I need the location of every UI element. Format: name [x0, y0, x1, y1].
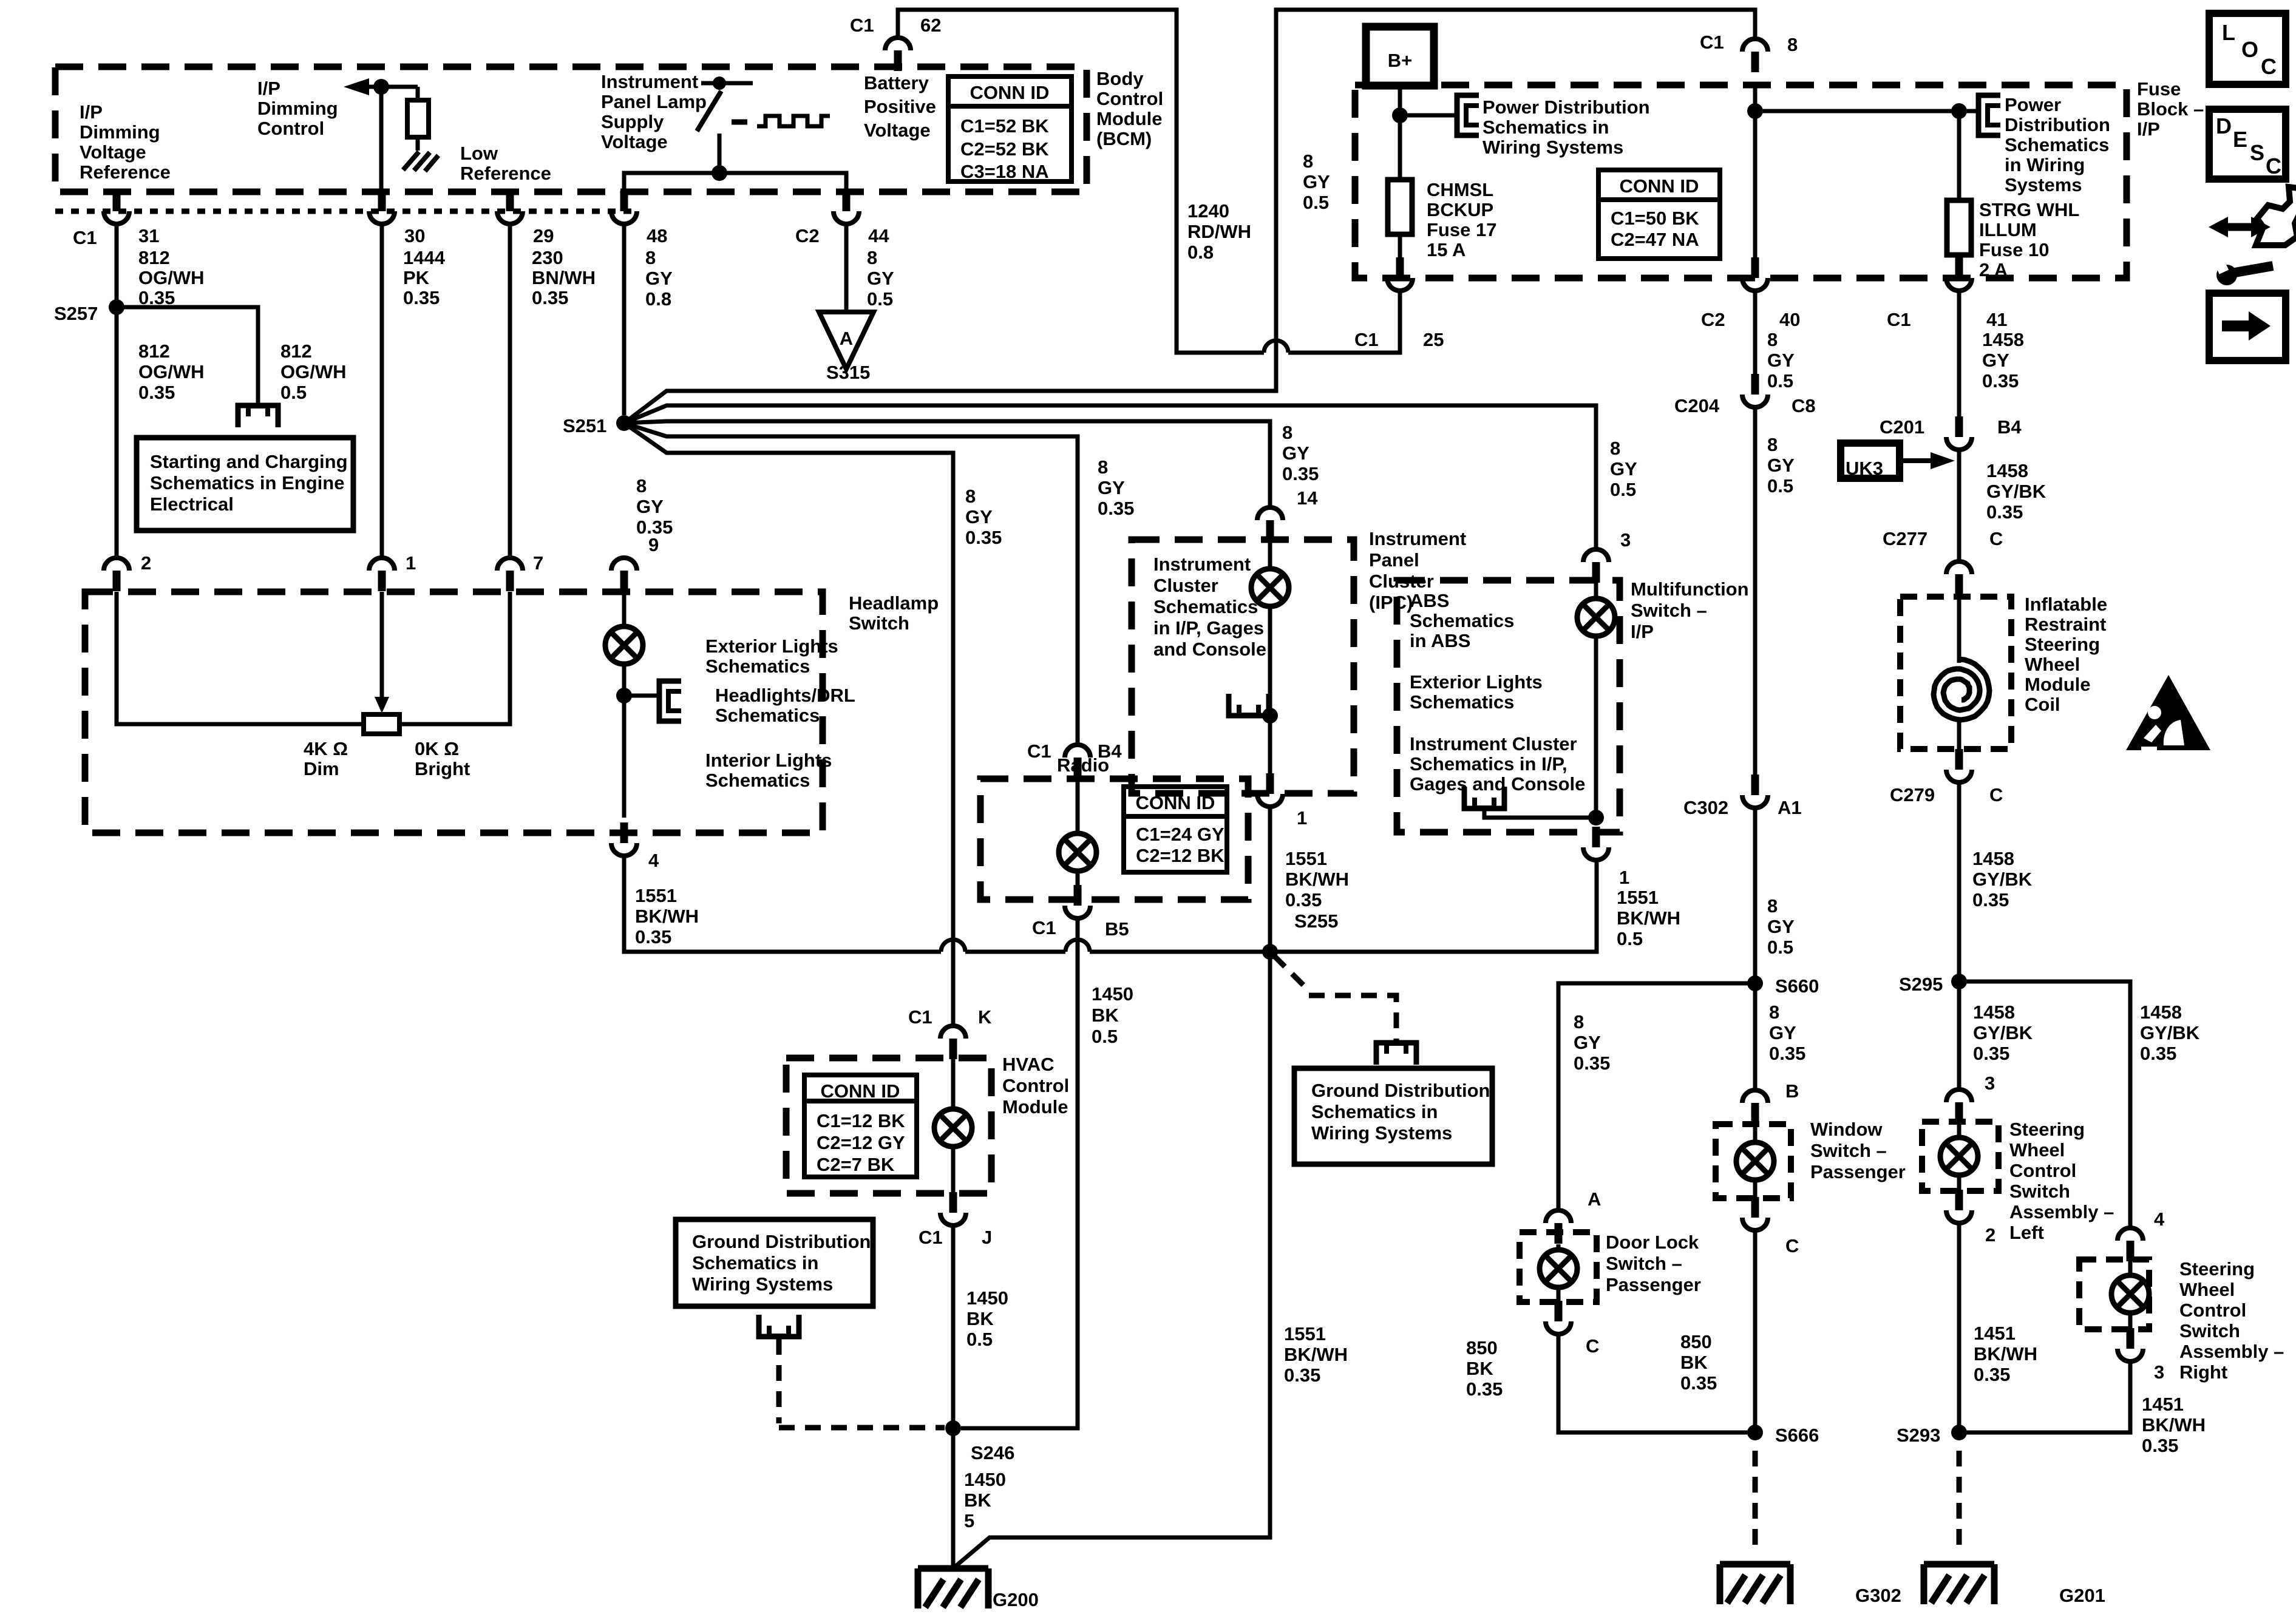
- wire C1-8 into fuse block: [1753, 85, 1758, 111]
- svg-text:in ABS: in ABS: [1410, 630, 1470, 651]
- lamp radio illumination: [1059, 833, 1096, 871]
- connector C2 pin 40: [1742, 257, 1768, 291]
- svg-text:0.5: 0.5: [1767, 370, 1793, 392]
- module box Fuse Block - I/P: [1355, 85, 2127, 278]
- connector pin 9: [611, 558, 637, 591]
- svg-text:Dimming: Dimming: [257, 98, 338, 119]
- label wire 1451 BK/WH 0.35 (right): [2142, 1394, 2206, 1456]
- wire radio lamp top: [1076, 779, 1080, 835]
- svg-text:I/P: I/P: [80, 101, 103, 123]
- svg-text:Fuse 17: Fuse 17: [1427, 219, 1496, 240]
- node S251: [616, 415, 632, 431]
- label Power Distribution Schematics in Wiring Systems (left): [1483, 97, 1650, 158]
- svg-text:Module: Module: [1002, 1096, 1068, 1117]
- connector pin 2 (steer left): [1946, 1190, 1972, 1223]
- table CONN ID (fuse block): [1598, 170, 1720, 259]
- label Instrument Cluster Schematics (ABS box): [1410, 733, 1585, 795]
- svg-text:0.35: 0.35: [635, 926, 671, 947]
- svg-text:8: 8: [636, 475, 647, 497]
- svg-text:1451: 1451: [1974, 1323, 2016, 1344]
- svg-text:44: 44: [868, 225, 889, 246]
- connector C2 pin 44: [834, 191, 859, 224]
- svg-text:GY: GY: [1767, 455, 1795, 476]
- svg-text:1458: 1458: [1982, 329, 2024, 350]
- svg-text:(IPC): (IPC): [1369, 592, 1413, 613]
- connector C (window): [1742, 1197, 1768, 1230]
- wire window lamp down: [1753, 1180, 1758, 1198]
- svg-text:Power Distribution: Power Distribution: [1483, 97, 1650, 118]
- connector C1 K (HVAC): [940, 1026, 966, 1059]
- label wire 230 BN/WH 0.35: [532, 247, 596, 308]
- label wire 1458 GY/BK 0.35 (right branch): [2140, 1002, 2200, 1064]
- svg-text:2: 2: [141, 552, 151, 574]
- svg-text:CHMSL: CHMSL: [1427, 179, 1493, 200]
- connector C204 C8: [1742, 374, 1768, 407]
- svg-text:CONN ID: CONN ID: [1620, 175, 1699, 197]
- wire steer left lamp top: [1957, 1122, 1961, 1139]
- box Starting and Charging Schematics: [137, 438, 353, 531]
- svg-text:Restraint: Restraint: [2025, 614, 2106, 635]
- connector pin 14: [1257, 507, 1283, 541]
- svg-text:GY: GY: [636, 496, 664, 517]
- svg-text:BK: BK: [1092, 1005, 1119, 1026]
- svg-text:GY: GY: [1767, 350, 1795, 371]
- svg-text:C2=12 BK: C2=12 BK: [1136, 845, 1224, 866]
- module box Steering Wheel Control Switch Assembly - Left: [1922, 1122, 1999, 1191]
- wire 8 GY pin44 to S315: [844, 224, 849, 312]
- wire 1240 RD/WH fuse17 to BCM C1-62: [1288, 291, 1400, 353]
- svg-text:Switch: Switch: [2179, 1320, 2240, 1341]
- label wire 1458 GY/BK 0.35 (S295 left): [1973, 1002, 2033, 1064]
- svg-text:C1: C1: [73, 227, 97, 248]
- svg-text:PK: PK: [403, 267, 430, 288]
- label Steering Wheel Control Switch Assembly - Left: [2009, 1119, 2114, 1243]
- svg-text:Module: Module: [1096, 108, 1163, 129]
- wire C2-40 to C204: [1753, 291, 1758, 374]
- label wire 1458 GY/BK 0.35 (below coil): [1972, 848, 2033, 910]
- svg-text:Assembly –: Assembly –: [2009, 1201, 2114, 1222]
- svg-text:Reference: Reference: [80, 161, 171, 183]
- box Ground Distribution Schematics (S255): [1294, 1068, 1492, 1164]
- label 0K ohm Bright: [415, 738, 470, 779]
- svg-text:Distribution: Distribution: [2005, 114, 2110, 135]
- wire steer right to S293: [1959, 1361, 2130, 1432]
- svg-text:Instrument: Instrument: [1369, 528, 1466, 549]
- svg-text:Inflatable: Inflatable: [2025, 594, 2107, 615]
- svg-text:8: 8: [965, 486, 976, 507]
- fuse CHMSL BCKUP Fuse 17 15A: [1398, 115, 1402, 180]
- wire window lamp top: [1753, 1124, 1758, 1144]
- label wire 1551 BK/WH 0.5: [1617, 887, 1680, 949]
- svg-text:4: 4: [2154, 1209, 2165, 1230]
- svg-text:C2=52 BK: C2=52 BK: [960, 138, 1049, 160]
- svg-text:5: 5: [964, 1510, 974, 1531]
- svg-text:I/P: I/P: [1631, 621, 1654, 642]
- svg-text:31: 31: [138, 225, 159, 246]
- svg-text:Control: Control: [257, 118, 324, 139]
- svg-text:ABS: ABS: [1410, 590, 1449, 611]
- option code UK3 pointer: [1841, 443, 1900, 478]
- lamp door lock switch illumination: [1540, 1250, 1577, 1287]
- svg-text:GY: GY: [867, 268, 894, 289]
- svg-text:Exterior Lights: Exterior Lights: [1410, 671, 1543, 693]
- label 4K ohm Dim: [304, 738, 348, 779]
- svg-text:C2=12 GY: C2=12 GY: [817, 1132, 905, 1153]
- svg-text:C1: C1: [1027, 741, 1051, 762]
- wire dashed S293 to G201: [1957, 1451, 1962, 1545]
- connector C1 J (HVAC): [940, 1192, 966, 1225]
- svg-text:B4: B4: [1997, 416, 2022, 438]
- svg-text:Fuse 10: Fuse 10: [1979, 239, 2049, 260]
- svg-text:C3=18 NA: C3=18 NA: [960, 161, 1049, 182]
- svg-text:Supply: Supply: [601, 111, 664, 132]
- label HVAC Control Module: [1002, 1054, 1069, 1117]
- svg-text:8: 8: [1769, 1002, 1779, 1023]
- connector C1 pin 30: [369, 191, 395, 224]
- module box Body Control Module (BCM): [55, 67, 1087, 192]
- svg-text:0.35: 0.35: [138, 382, 175, 403]
- svg-text:C1=24 GY: C1=24 GY: [1136, 824, 1224, 845]
- connector C1 pin 48: [611, 191, 637, 224]
- wire S660 to door lock switch: [1558, 983, 1755, 1210]
- svg-text:29: 29: [533, 225, 554, 246]
- svg-text:Wiring Systems: Wiring Systems: [1483, 137, 1623, 158]
- svg-text:1: 1: [1297, 807, 1307, 829]
- svg-text:0.35: 0.35: [1974, 1364, 2010, 1385]
- wire C201 to C277: [1957, 450, 1961, 561]
- svg-text:GY: GY: [1982, 350, 2009, 371]
- svg-text:(BCM): (BCM): [1096, 128, 1152, 149]
- label Low Reference: [460, 143, 551, 184]
- wire pin14 to IPC lamp: [1268, 540, 1272, 570]
- svg-text:in Wiring: in Wiring: [2005, 154, 2085, 175]
- svg-text:Exterior Lights: Exterior Lights: [705, 636, 838, 657]
- svg-text:1551: 1551: [635, 885, 677, 906]
- legend service icon: [2256, 187, 2296, 245]
- svg-text:25: 25: [1423, 329, 1444, 350]
- svg-text:G302: G302: [1855, 1585, 1901, 1606]
- svg-text:Radio: Radio: [1057, 754, 1109, 776]
- svg-text:RD/WH: RD/WH: [1187, 221, 1251, 242]
- wire S295 to right switch: [1959, 981, 2130, 1228]
- connector C1 B5 (radio): [1065, 885, 1090, 918]
- svg-text:8: 8: [1303, 151, 1313, 172]
- flag power distribution (right): [1978, 95, 2000, 135]
- wire 8 GY pin48 to S251: [622, 224, 627, 415]
- label wire 8 GY 0.35 (to HVAC): [965, 486, 1002, 548]
- wire multifunction lamp top: [1594, 583, 1598, 598]
- svg-text:A1: A1: [1778, 797, 1802, 818]
- svg-text:0.8: 0.8: [1187, 242, 1214, 263]
- wire dashed S255 to ground flag: [1274, 955, 1309, 991]
- wire dashed S666 to G302: [1753, 1451, 1758, 1545]
- module box HVAC Control Module: [786, 1058, 991, 1193]
- label Instrument Cluster Schematics in I/P Gages and Console: [1153, 554, 1266, 660]
- svg-text:C279: C279: [1890, 784, 1935, 805]
- wire across fuse block: [1755, 109, 1978, 114]
- label Steering Wheel Control Switch Assembly - Right: [2179, 1258, 2284, 1383]
- label wire 1451 BK/WH 0.35 (left): [1974, 1323, 2037, 1385]
- lamp multifunction switch illumination: [1577, 598, 1615, 636]
- label wire 8 GY 0.5 (below C8): [1767, 434, 1795, 497]
- svg-text:C1=52 BK: C1=52 BK: [960, 115, 1049, 137]
- label wire 8 GY 0.5 (above C204): [1767, 329, 1795, 392]
- connector pin 4: [611, 822, 637, 856]
- wire pin41 to C201: [1957, 291, 1961, 416]
- lamp steering right illumination: [2111, 1275, 2149, 1313]
- label wire 8 GY 0.35 (door lock): [1574, 1011, 1610, 1074]
- label wire 850 BK 0.35 (door lock): [1466, 1337, 1503, 1400]
- svg-text:1450: 1450: [964, 1469, 1006, 1490]
- svg-text:0.35: 0.35: [532, 287, 568, 308]
- svg-text:1551: 1551: [1284, 1323, 1326, 1344]
- svg-text:0.35: 0.35: [965, 527, 1002, 548]
- svg-text:GY/BK: GY/BK: [1986, 481, 2046, 502]
- connector C1 pin 41: [1946, 257, 1972, 291]
- svg-text:1: 1: [406, 552, 416, 574]
- node fuse block junction 2: [1951, 103, 1967, 119]
- connector pin 1 (IPC): [1257, 773, 1283, 807]
- wire S257 to pin 2: [115, 307, 119, 557]
- svg-text:C2=47 NA: C2=47 NA: [1611, 229, 1699, 250]
- svg-text:Panel: Panel: [1369, 549, 1419, 571]
- label Fuse Block - I/P: [2137, 78, 2204, 140]
- node S295: [1951, 974, 1967, 989]
- wire coil top: [1957, 597, 1961, 663]
- svg-text:812: 812: [280, 341, 312, 362]
- svg-text:0K Ω: 0K Ω: [415, 738, 459, 759]
- battery feed B+ symbol: [1366, 27, 1434, 86]
- svg-text:Power: Power: [2005, 94, 2061, 115]
- label Exterior Lights Schematics: [705, 636, 838, 677]
- svg-text:D: D: [2216, 114, 2232, 138]
- svg-text:Starting and Charging: Starting and Charging: [150, 451, 348, 472]
- svg-text:E: E: [2233, 127, 2247, 152]
- svg-text:STRG WHL: STRG WHL: [1979, 199, 2079, 220]
- svg-text:48: 48: [647, 225, 667, 246]
- flag headlights/DRL schematics: [659, 681, 681, 721]
- label wire 8 GY 0.5 (below A1): [1767, 895, 1795, 958]
- svg-text:0.35: 0.35: [1284, 1364, 1320, 1386]
- label wire 1458 GY 0.35: [1982, 329, 2024, 392]
- svg-text:C: C: [1785, 1235, 1799, 1256]
- wire S257 branch to starting/charging: [117, 307, 258, 403]
- svg-text:Passenger: Passenger: [1606, 1274, 1701, 1295]
- wire coil bottom: [1957, 720, 1961, 749]
- svg-text:Low: Low: [460, 143, 498, 164]
- svg-text:Assembly –: Assembly –: [2179, 1341, 2284, 1362]
- svg-text:0.5: 0.5: [1767, 937, 1793, 958]
- svg-text:Instrument: Instrument: [1153, 554, 1251, 575]
- svg-text:0.35: 0.35: [2140, 1043, 2176, 1064]
- svg-text:L: L: [2222, 20, 2235, 45]
- ground BCM internal chassis: [403, 152, 438, 171]
- svg-text:BK/WH: BK/WH: [2142, 1414, 2206, 1436]
- label wire 1551 BK/WH 0.35 (IPC): [1285, 848, 1349, 910]
- flag ground distribution (S255): [1376, 1043, 1416, 1065]
- svg-text:C1: C1: [1032, 917, 1056, 938]
- label wire 1551 BK/WH 0.35 (pin 4): [635, 885, 699, 947]
- label wire 1450 BK 5: [964, 1469, 1006, 1531]
- svg-text:OG/WH: OG/WH: [138, 361, 205, 382]
- label wire 1450 BK 0.5 (HVAC): [966, 1287, 1008, 1350]
- svg-text:1450: 1450: [1092, 983, 1133, 1005]
- svg-text:0.5: 0.5: [1617, 928, 1643, 949]
- wire to headlights flag: [624, 694, 659, 698]
- lamp headlamp switch illumination: [605, 626, 643, 664]
- svg-text:0.5: 0.5: [867, 288, 893, 310]
- wire steer right lamp down: [2128, 1313, 2133, 1329]
- connector C1 pin 29: [497, 191, 523, 224]
- svg-text:Schematics: Schematics: [1410, 691, 1514, 713]
- svg-text:CONN ID: CONN ID: [970, 82, 1050, 103]
- label I/P Dimming Control: [257, 78, 338, 139]
- svg-text:C: C: [2266, 154, 2281, 178]
- fuse STRG WHL ILLUM Fuse 10 2A: [1957, 111, 1961, 200]
- svg-text:in I/P, Gages: in I/P, Gages: [1153, 617, 1264, 639]
- connector A (door lock): [1546, 1210, 1571, 1244]
- svg-text:Voltage: Voltage: [80, 141, 146, 163]
- label Headlamp Switch: [849, 592, 939, 634]
- wire pin2 to potentiometer: [117, 592, 364, 724]
- connector pin 2: [104, 558, 129, 591]
- svg-text:8: 8: [1767, 329, 1778, 350]
- wire S251 to HVAC: [624, 423, 953, 1026]
- flag power distribution (left): [1457, 95, 1479, 135]
- svg-text:GY/BK: GY/BK: [1972, 869, 2033, 890]
- connector C1 pin 62: [885, 38, 911, 71]
- svg-text:BN/WH: BN/WH: [532, 267, 596, 288]
- svg-text:S257: S257: [54, 303, 98, 324]
- svg-text:41: 41: [1986, 309, 2007, 330]
- wire door lamp top: [1557, 1244, 1561, 1251]
- label Headlights/DRL Schematics: [715, 685, 855, 726]
- svg-text:Steering: Steering: [2179, 1258, 2255, 1280]
- svg-text:GY: GY: [1282, 442, 1309, 464]
- svg-text:Body: Body: [1096, 68, 1144, 89]
- svg-text:C2=7 BK: C2=7 BK: [817, 1154, 895, 1175]
- coil clockspring spiral: [1934, 659, 1989, 720]
- wire door lock C to S666: [1558, 1334, 1755, 1432]
- svg-text:Schematics in: Schematics in: [1311, 1101, 1438, 1122]
- table CONN ID (BCM): [948, 76, 1072, 182]
- svg-text:8: 8: [1787, 34, 1798, 55]
- label Exterior Lights Schematics (ABS box): [1410, 671, 1543, 713]
- label Instrument Panel Cluster (IPC): [1369, 528, 1466, 613]
- svg-text:1444: 1444: [403, 247, 446, 268]
- wire S246 to G200: [951, 1428, 956, 1568]
- node S255: [1262, 944, 1278, 960]
- legend forward arrow box: [2209, 293, 2286, 361]
- wire potentiometer to pin 7: [399, 592, 510, 724]
- svg-text:3: 3: [1620, 529, 1631, 551]
- connector pin 3 (steer left): [1946, 1090, 1972, 1123]
- splice S315 triangle: [819, 312, 874, 369]
- wire pin9 to lamp: [622, 592, 627, 626]
- svg-text:Instrument Cluster: Instrument Cluster: [1410, 733, 1577, 754]
- node fuse block junction 1: [1747, 103, 1763, 119]
- label wire 1240 RD/WH 0.8: [1187, 200, 1251, 263]
- svg-text:G201: G201: [2059, 1585, 2105, 1606]
- connector B (window): [1742, 1090, 1768, 1124]
- svg-text:S: S: [2250, 140, 2264, 165]
- svg-text:C1: C1: [1700, 32, 1724, 53]
- svg-text:GY: GY: [1610, 458, 1637, 480]
- svg-text:1458: 1458: [1972, 848, 2014, 869]
- wire lamp supply bus: [624, 173, 846, 192]
- symbol airbag warning triangle: [2126, 675, 2210, 750]
- wire IPC lamp down: [1268, 606, 1272, 775]
- svg-text:Cluster: Cluster: [1153, 575, 1218, 596]
- svg-text:Module: Module: [2025, 674, 2091, 695]
- svg-text:C: C: [1586, 1335, 1599, 1357]
- svg-text:GY: GY: [1769, 1022, 1796, 1043]
- svg-text:850: 850: [1466, 1337, 1498, 1358]
- svg-text:B5: B5: [1105, 918, 1129, 940]
- symbol PWM square wave: [757, 116, 830, 126]
- flag IPC cross reference: [1229, 694, 1269, 716]
- svg-text:ILLUM: ILLUM: [1979, 219, 2037, 240]
- node headlamp flag junction: [616, 688, 632, 703]
- svg-text:0.35: 0.35: [1574, 1053, 1610, 1074]
- svg-text:Control: Control: [1002, 1075, 1069, 1096]
- svg-text:1458: 1458: [1986, 460, 2028, 481]
- svg-text:8: 8: [1767, 434, 1778, 455]
- flag to starting and charging schematics: [238, 405, 278, 427]
- svg-text:0.35: 0.35: [1769, 1043, 1805, 1064]
- label wire 8 GY 0.35 (S660): [1769, 1002, 1805, 1064]
- wire steer left to S293: [1957, 1223, 1961, 1432]
- svg-text:8: 8: [1098, 456, 1108, 478]
- svg-text:0.35: 0.35: [1285, 889, 1322, 910]
- potentiometer dimmer: [364, 714, 399, 734]
- svg-text:GY: GY: [1767, 916, 1795, 937]
- flag ground distribution (left): [759, 1315, 799, 1337]
- wire radio lamp down: [1076, 870, 1080, 885]
- svg-text:Switch: Switch: [2009, 1181, 2070, 1202]
- label wire 8 GY 0.5 (to C1-8): [1303, 151, 1330, 213]
- lamp steering left illumination: [1940, 1137, 1978, 1175]
- svg-text:Cluster: Cluster: [1369, 571, 1434, 592]
- svg-text:BK/WH: BK/WH: [1617, 907, 1680, 929]
- svg-text:40: 40: [1779, 309, 1800, 330]
- connector C1 pin 25: [1387, 257, 1413, 291]
- module box Inflatable Restraint Steering Wheel Module Coil: [1900, 597, 2011, 749]
- svg-text:1551: 1551: [1617, 887, 1659, 908]
- node lamp supply junction: [712, 165, 727, 181]
- svg-text:Wiring Systems: Wiring Systems: [1311, 1122, 1452, 1144]
- svg-text:BK: BK: [1680, 1352, 1708, 1373]
- svg-text:0.35: 0.35: [1282, 463, 1319, 484]
- wire pin 4 to multifunction pin 1: [624, 856, 941, 952]
- svg-text:S660: S660: [1775, 975, 1819, 997]
- svg-text:C1: C1: [1354, 329, 1379, 350]
- svg-text:Switch: Switch: [849, 612, 909, 634]
- wire steer right lamp top: [2128, 1259, 2133, 1276]
- svg-text:0.35: 0.35: [1973, 1043, 2009, 1064]
- svg-text:Schematics: Schematics: [2005, 134, 2109, 155]
- svg-text:0.35: 0.35: [1982, 370, 2019, 392]
- svg-text:14: 14: [1297, 487, 1318, 509]
- svg-text:I/P: I/P: [2137, 118, 2160, 140]
- svg-text:Switch –: Switch –: [1606, 1253, 1682, 1274]
- svg-text:BK/WH: BK/WH: [1284, 1344, 1348, 1365]
- ground G302: [1720, 1564, 1790, 1604]
- svg-text:Gages and Console: Gages and Console: [1410, 773, 1585, 795]
- module box Multifunction Switch - I/P: [1397, 580, 1620, 832]
- svg-text:0.35: 0.35: [1972, 889, 2009, 910]
- svg-text:62: 62: [920, 15, 941, 36]
